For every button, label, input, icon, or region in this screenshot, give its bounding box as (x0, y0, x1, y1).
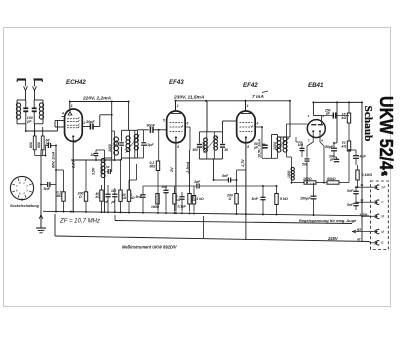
tube EF43 grid hook (181, 126, 183, 128)
bandfilter II primary coil (129, 136, 131, 152)
resistor 15k (348, 102, 350, 113)
svg-text:0,1μF: 0,1μF (178, 205, 188, 209)
svg-text:UKW 52/4: UKW 52/4 (376, 96, 396, 170)
supply rail 230V (176, 100, 291, 102)
svg-text:5nF: 5nF (44, 187, 51, 191)
terminal M 3 (376, 214, 379, 218)
svg-text:5: 5 (163, 119, 165, 123)
svg-text:6: 6 (257, 122, 259, 126)
svg-text:schw: schw (360, 212, 368, 216)
capacitor 500 bf3 (197, 144, 202, 146)
terminal M 4 (376, 229, 379, 233)
resistor x189.5 (188, 194, 191, 205)
terminal wires (358, 186, 371, 188)
tube EF42 grids (240, 122, 253, 124)
tube EF42 grid hook (251, 126, 253, 128)
tube EF43 cathode dot (175, 136, 177, 138)
wire 80V line (55, 146, 57, 212)
resistor 0,1M right (356, 170, 359, 180)
svg-text:110: 110 (111, 189, 116, 193)
wire tank2 down (34, 124, 36, 136)
svg-text:50μF: 50μF (325, 145, 334, 149)
tube EB41 top pin jog (312, 102, 314, 115)
svg-text:1000: 1000 (287, 170, 291, 178)
oscillator coil tap (105, 157, 112, 159)
tube EF43 cathode pin (175, 139, 177, 212)
rail drop oscillator (111, 102, 113, 159)
ground symbol (40, 211, 42, 228)
rail 2 regelspannung (115, 221, 352, 224)
ground rail (43, 211, 369, 216)
capacitor 10uF (143, 130, 145, 142)
svg-text:MΩ: MΩ (150, 164, 156, 168)
antenna dipole arm 2 (34, 78, 43, 80)
capacitor 90pF (149, 127, 151, 133)
wire drop x337 (336, 102, 338, 143)
resistor 0,2M grid leak (158, 130, 160, 161)
svg-text:50kΩ: 50kΩ (327, 177, 336, 181)
capacitor 300pF (334, 158, 339, 160)
svg-text:MΩ: MΩ (57, 194, 63, 198)
svg-text:220V, 2,2mA: 220V, 2,2mA (82, 95, 112, 101)
resistor col x129 (127, 190, 130, 201)
antenna dipole arm 1 (17, 78, 26, 80)
svg-text:4μF: 4μF (359, 155, 367, 159)
input tank L1 coil (16, 103, 18, 119)
svg-text:3: 3 (308, 114, 310, 118)
bandfilter II box wires (122, 129, 138, 131)
capacitor 50uF (261, 127, 263, 144)
wire drop x203 (203, 216, 205, 238)
svg-text:6: 6 (187, 122, 189, 126)
svg-text:ZF = 10,7 MHz: ZF = 10,7 MHz (59, 219, 100, 225)
wire osc bottom (104, 178, 106, 212)
tube ECH42 envelope (65, 109, 83, 141)
capacitor 18pF (119, 142, 124, 144)
svg-text:5nF: 5nF (136, 195, 143, 199)
svg-text:50: 50 (225, 148, 229, 152)
svg-text:7: 7 (308, 139, 310, 143)
junction dots top rails (69, 101, 71, 103)
svg-text:EB41: EB41 (308, 82, 324, 89)
junction dots misc (95, 159, 97, 161)
svg-text:1000: 1000 (108, 144, 112, 152)
svg-text:4: 4 (61, 112, 64, 116)
svg-text:pF: pF (26, 119, 32, 123)
bandfilter II secondary coil (134, 134, 136, 149)
svg-text:1000: 1000 (273, 142, 277, 150)
oscillator coil 1000 (104, 159, 106, 178)
svg-text:3,5V: 3,5V (92, 167, 96, 175)
tube EB41 diode plates (311, 124, 316, 126)
svg-text:8: 8 (247, 145, 249, 149)
tube EF42 envelope (237, 111, 256, 143)
resistor 0,1M (63, 170, 65, 192)
tube EF42 pin top (245, 101, 247, 111)
top rail right (313, 101, 362, 103)
terminal wire 245V (369, 242, 371, 243)
wire to EB41 diode (287, 123, 308, 125)
svg-text:Sockelschaltung: Sockelschaltung (10, 204, 40, 208)
wire bf3 to grid (222, 121, 224, 132)
svg-text:100: 100 (298, 143, 304, 147)
svg-text:kΩ: kΩ (342, 116, 347, 120)
tube EF42 cathode pin (245, 139, 247, 214)
capacitor 50uF right (331, 147, 337, 149)
tube ECH42 anode triangle (68, 112, 72, 115)
bandfilter IV arrow (276, 138, 290, 150)
bandfilter IV secondary coil (286, 137, 288, 152)
terminal B 5 (376, 241, 379, 245)
antenna plug connector 2 (33, 86, 37, 90)
vertical right 362 (361, 102, 363, 242)
capacitor 110pF (112, 193, 117, 195)
resistor col x102 (100, 190, 103, 201)
supply rail 220V (69, 101, 128, 103)
svg-text:5: 5 (323, 114, 325, 118)
grid leak junction (158, 129, 160, 131)
terminal NF 1 (376, 185, 379, 189)
svg-text:2V: 2V (170, 167, 174, 173)
svg-text:Regelspannung für mag. Auge: Regelspannung für mag. Auge (299, 218, 357, 223)
svg-text:1 kΩ: 1 kΩ (197, 197, 205, 201)
tube ECH42 pin 1 top (69, 102, 71, 110)
resistor 50k (327, 181, 339, 184)
svg-text:kΩ: kΩ (122, 196, 127, 200)
capacitor x166 (163, 189, 168, 191)
capacitor 4uF (353, 155, 359, 157)
resistor x174.5 (173, 194, 176, 205)
bandfilter III arrow (204, 136, 218, 153)
connector box dashed (371, 181, 389, 250)
svg-text:5nF: 5nF (347, 189, 354, 193)
resistor x157.5 bottom (156, 194, 159, 205)
svg-text:90pF: 90pF (147, 123, 156, 127)
trimmer capacitor C1 (23, 107, 28, 109)
svg-text:7 mA: 7 mA (252, 94, 264, 100)
rail 3 245V (55, 236, 369, 242)
rail ga wire (352, 231, 370, 233)
svg-text:500: 500 (193, 148, 199, 152)
capacitor col x108 (105, 193, 110, 195)
svg-text:5nF: 5nF (347, 203, 354, 207)
tube EF43 grids (170, 122, 183, 124)
svg-text:180Ω: 180Ω (303, 177, 312, 181)
bandfilter III box (199, 131, 222, 133)
logo blob (381, 171, 388, 176)
svg-text:1,7V: 1,7V (241, 159, 245, 167)
wire y160 bus (71, 159, 121, 161)
svg-text:30pF: 30pF (86, 120, 95, 124)
svg-text:8: 8 (75, 140, 77, 144)
wire tank1 to junction (25, 124, 27, 131)
bandfilter II tuning arrow (126, 134, 140, 153)
svg-text:1: 1 (71, 104, 73, 108)
resistor 70k (347, 141, 350, 151)
tube EF43 anode (171, 113, 181, 115)
svg-text:kΩ: kΩ (96, 195, 101, 199)
screen wire ef42 (261, 127, 263, 158)
capacitor 68pF (47, 143, 49, 148)
svg-text:kΩ: kΩ (342, 144, 347, 148)
avc line (143, 185, 196, 187)
tube ECH42 cathode dot (72, 135, 74, 137)
capacitor 500 (305, 158, 310, 160)
resistor 1k avc (192, 196, 195, 205)
capacitor 5nF t2 (353, 202, 358, 204)
rail drop right (128, 102, 130, 131)
tube EB41 bottom pins (312, 132, 314, 142)
svg-text:600: 600 (29, 142, 33, 148)
capacitor 50 bf3 (222, 132, 224, 144)
wire grid EF43 (138, 129, 149, 131)
svg-text:EF42: EF42 (243, 82, 258, 89)
svg-text:1: 1 (177, 104, 179, 108)
svg-text:5 kΩ: 5 kΩ (280, 197, 288, 201)
svg-text:pF: pF (45, 142, 51, 146)
svg-text:ECH42: ECH42 (66, 79, 86, 86)
svg-text:Ω: Ω (228, 197, 232, 201)
tube EF43 envelope (167, 111, 186, 143)
svg-text:0,1MΩ: 0,1MΩ (362, 173, 373, 177)
socket circle Sockelschaltung (10, 176, 33, 199)
capacitor 180uF (311, 195, 317, 197)
resistor 180 ohm (292, 182, 305, 184)
svg-text:EF43: EF43 (169, 79, 184, 86)
input tank L2 coil (42, 103, 44, 119)
svg-text:6: 6 (321, 139, 323, 143)
svg-text:1: 1 (247, 104, 249, 108)
svg-text:ga: ga (356, 227, 361, 231)
svg-text:kΩ: kΩ (191, 198, 196, 202)
bandfilter I coil (114, 137, 116, 155)
svg-text:245V: 245V (327, 236, 339, 241)
svg-text:Meßinstrument UKW 892D/V: Meßinstrument UKW 892D/V (122, 245, 177, 250)
tube EB41 envelope (307, 120, 325, 138)
antenna plug connector 1 (24, 86, 28, 90)
capacitor 5nF t1 (353, 190, 358, 192)
capacitor 5nF out (260, 196, 265, 198)
wire anode out (82, 126, 90, 128)
terminal P 2 (376, 200, 379, 204)
svg-text:10μF: 10μF (146, 143, 155, 147)
socket notch (21, 199, 23, 202)
junction dots ground rail (55, 210, 57, 212)
capacitor 30 osc (94, 152, 99, 154)
screen dropper wire (189, 127, 191, 150)
svg-text:5nF: 5nF (222, 174, 229, 178)
tube EF43 pin 6 right (185, 126, 190, 128)
choke wires (34, 131, 36, 136)
svg-text:Ω: Ω (78, 195, 82, 199)
svg-text:M: M (381, 230, 384, 234)
svg-text:80V, 2mA: 80V, 2mA (52, 151, 56, 168)
resistor 5k (275, 194, 278, 205)
wire bf3 down (213, 159, 215, 180)
tube ECH42 pin 8 bottom (72, 138, 74, 212)
tube EF42 pin 6 right (255, 126, 262, 128)
svg-text:kΩ: kΩ (130, 196, 135, 200)
svg-text:30: 30 (91, 153, 95, 157)
choke 600 left (33, 136, 36, 150)
svg-text:2,2V: 2,2V (72, 160, 76, 169)
input tank 2 wires (34, 99, 43, 101)
svg-text:1000: 1000 (100, 166, 104, 174)
resistor 200 ohm (85, 160, 87, 192)
svg-text:Schaub: Schaub (362, 106, 374, 142)
svg-text:600: 600 (37, 142, 41, 148)
bandfilter IV primary coil (277, 137, 279, 152)
svg-text:160Ω: 160Ω (151, 205, 160, 209)
wire eb41 out (323, 155, 325, 183)
svg-text:3nF: 3nF (194, 180, 201, 184)
svg-text:230V, 11,5mA: 230V, 11,5mA (173, 95, 205, 101)
wire drop x246b (245, 214, 247, 240)
capacitor 5nF cathode (41, 184, 47, 186)
padder capacitor (111, 158, 113, 172)
capacitor 100 (300, 147, 305, 149)
choke 600 right (41, 136, 44, 150)
svg-text:M: M (381, 215, 384, 219)
svg-text:50: 50 (106, 165, 110, 169)
svg-text:10,5V, 2mA: 10,5V, 2mA (258, 139, 262, 158)
svg-text:8: 8 (177, 145, 179, 149)
coupling coil below (291, 168, 293, 181)
capacitor 250pF (332, 113, 334, 119)
trimmer capacitor C2 (32, 107, 37, 109)
resistor 200 ohm ef42 (236, 170, 238, 194)
wire grid pins (55, 120, 65, 122)
wire to grid riser (26, 130, 58, 132)
capacitor 3nF avc (196, 184, 198, 189)
svg-text:180μF: 180μF (300, 197, 311, 201)
capacitor 5nF ef43 (140, 194, 145, 196)
tube EF42 cathode dot (245, 136, 247, 138)
tube EF43 pin top (175, 101, 177, 111)
svg-text:1000: 1000 (202, 142, 206, 150)
bandfilter III primary coil (206, 138, 208, 152)
wire bf2 bottom down (129, 158, 131, 190)
capacitor x182 (179, 196, 184, 198)
capacitor 30pF (89, 124, 91, 130)
wire mid right (334, 156, 337, 158)
resistor col x120.5 (119, 190, 122, 201)
capacitor 5nF avc2 (227, 178, 229, 183)
wire anode riser (99, 115, 101, 127)
rail drop to bf3 (289, 101, 291, 137)
rail drop mid (206, 101, 208, 132)
input tank wires (17, 99, 26, 101)
tube ECH42 grid pin 4 (62, 116, 65, 118)
tube EF42 anode (241, 113, 251, 115)
tube ECH42 grids (67, 118, 79, 120)
grid riser wire (57, 121, 59, 132)
wire ground spur (40, 150, 42, 228)
tube EB41 cathode dots (312, 130, 314, 132)
svg-text:5nF: 5nF (252, 197, 259, 201)
bandfilter III secondary coil (213, 136, 215, 150)
